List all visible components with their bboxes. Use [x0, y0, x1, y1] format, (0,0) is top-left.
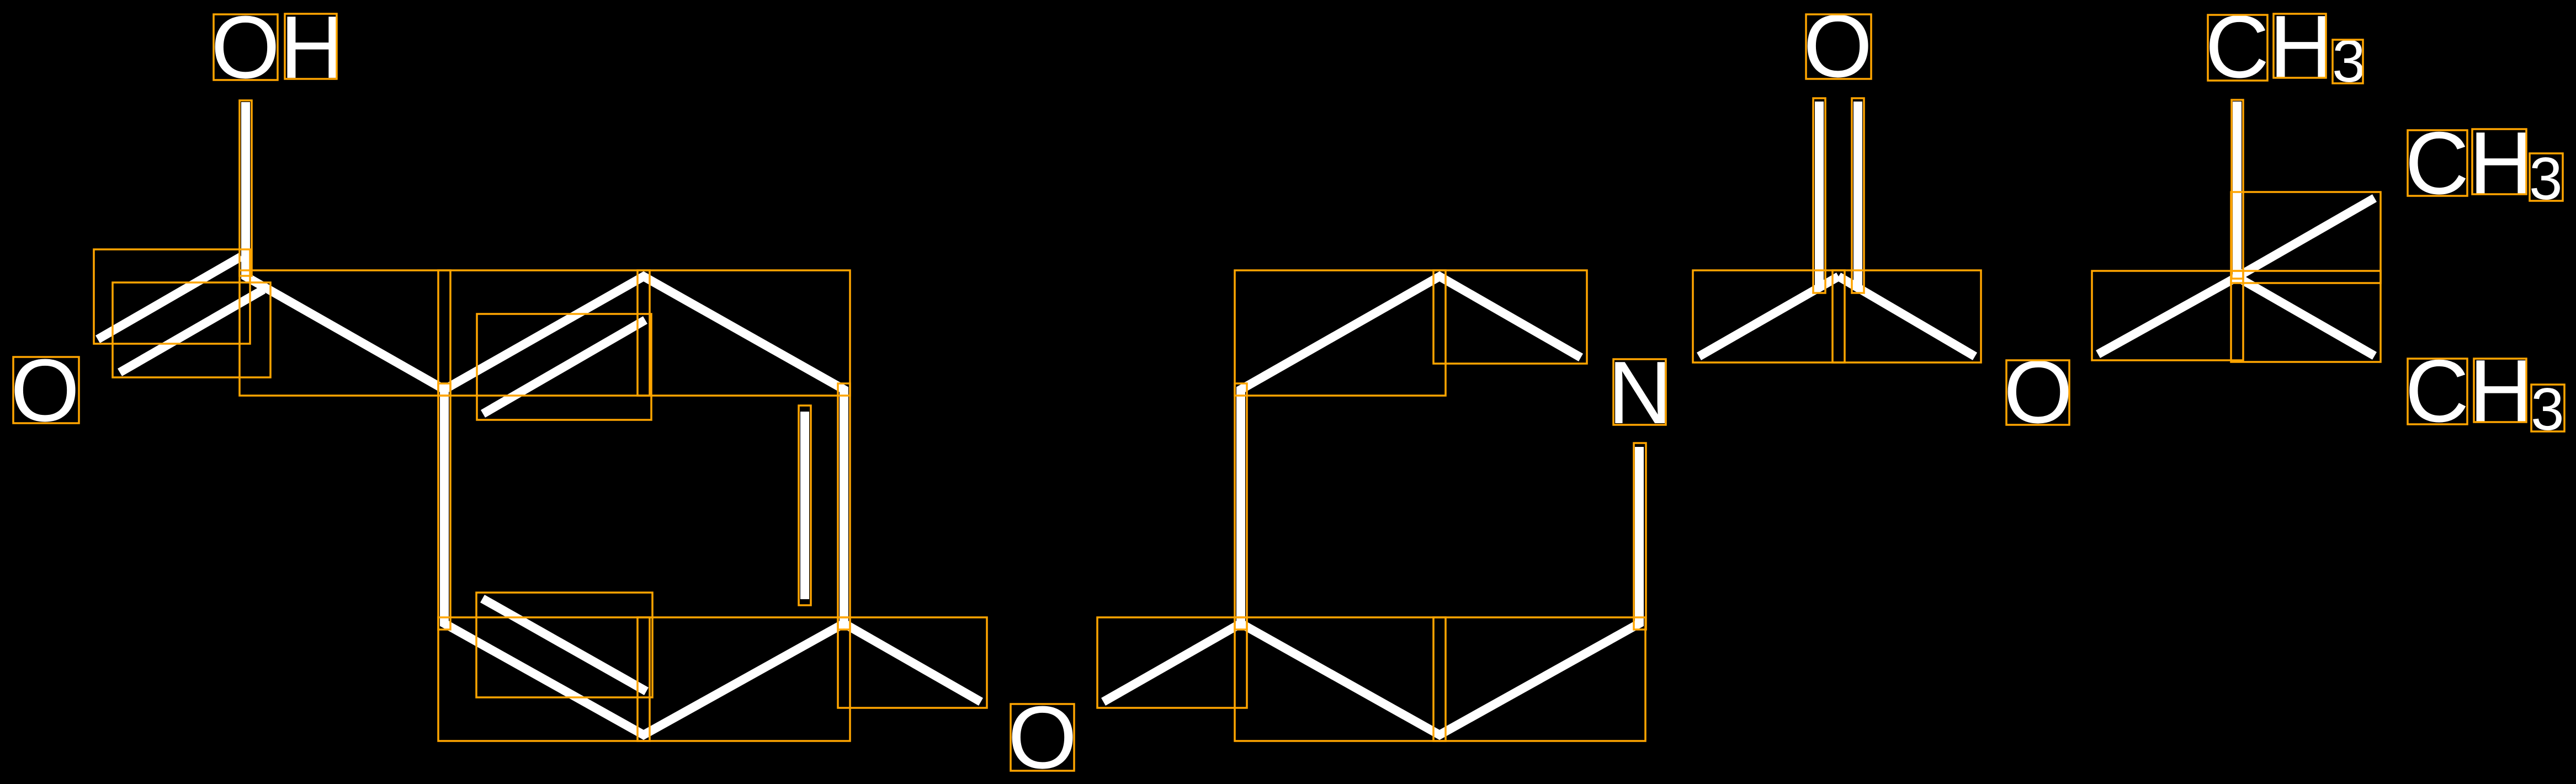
bbox bond C1=O1 lower: [113, 282, 270, 377]
bbox bond B-C: [438, 383, 450, 630]
benzene ring outline (bonds B-A, A-F, F-E, E-D, D-C, C-B): [444, 276, 844, 735]
bbox bond C3-CH3top: [2232, 100, 2243, 279]
bbox label O of OH: [214, 14, 278, 80]
bbox bond P2-P3: [1235, 383, 1247, 630]
bond C3-CH3top: [2233, 102, 2242, 277]
bond E-O3: [844, 623, 981, 702]
bond C2=O4 line left: [1815, 102, 1824, 289]
bbox bond B-A: [438, 270, 650, 396]
bbox label N: [1613, 359, 1666, 425]
bond C1=O1 line upper: [98, 257, 241, 339]
bbox bond B-A inner: [477, 314, 651, 420]
svg-text:3: 3: [2332, 28, 2366, 95]
svg-text:O: O: [2004, 343, 2073, 442]
bbox label 3 of CH3 top: [2333, 40, 2363, 83]
bbox bond C-D: [438, 617, 650, 741]
bbox label H of CH3 top: [2274, 14, 2326, 78]
bbox bond N-C2: [1693, 270, 1845, 362]
bbox bond P2-P1: [1235, 270, 1446, 396]
bbox bond C1=O1 upper: [94, 249, 250, 344]
bond C2=O4 line right: [1853, 102, 1862, 289]
bbox bond C3-CH3rl: [2231, 271, 2381, 362]
bond N-C2: [1699, 276, 1839, 356]
bbox bond N-P5: [1634, 443, 1646, 630]
svg-text:3: 3: [2529, 145, 2563, 212]
bbox label C of CH3 right-lower: [2408, 359, 2467, 424]
bbox bond O2(OH)-C1: [240, 100, 252, 276]
bbox bond C1-B: [240, 270, 450, 396]
bbox bond P1-N: [1433, 270, 1587, 364]
bbox bond F-E: [838, 383, 850, 630]
bond C2-O5: [1839, 276, 1975, 356]
bbox bond P4-P5: [1433, 617, 1645, 741]
bbox bond P3-P4: [1235, 617, 1446, 741]
svg-text:O: O: [1008, 688, 1077, 784]
bbox label O5: [2006, 360, 2069, 425]
bbox label H of CH3 right-lower: [2474, 359, 2526, 422]
bbox bond C2-O5: [1833, 270, 1981, 362]
bbox label O1: [13, 357, 79, 423]
bond C3-CH3right-lower: [2237, 277, 2375, 356]
bond B-A inner line: [483, 320, 645, 414]
bbox bond A-F: [638, 270, 850, 396]
svg-text:O: O: [10, 341, 79, 440]
svg-text:N: N: [1608, 343, 1672, 442]
bond F-E inner line: [800, 412, 809, 599]
bbox bond O5-C3: [2092, 271, 2243, 360]
bbox bond C2=O4 right: [1852, 98, 1864, 293]
bond O3-P3: [1103, 623, 1241, 702]
bbox bond O3-P3: [1097, 617, 1247, 708]
bond chain OH-C1-B (bond O2-C1 vertical and bond C1-B): [246, 102, 444, 390]
bond O5-C3: [2098, 277, 2237, 354]
bbox label C of CH3 top: [2208, 15, 2267, 81]
bbox bond D-E: [638, 617, 850, 741]
bbox bond E-O3: [838, 617, 987, 708]
bbox label O3: [1011, 704, 1074, 771]
svg-text:CH: CH: [2405, 342, 2533, 441]
bbox label H of OH: [285, 14, 337, 79]
bbox bond C2=O4 left: [1813, 98, 1825, 293]
bbox bond C3-CH3ru: [2231, 192, 2381, 283]
bbox label H of CH3 right-upper: [2472, 129, 2526, 194]
bbox label O4: [1806, 14, 1871, 79]
bond C3-CH3right-upper: [2237, 198, 2375, 277]
bbox bond F-E inner: [799, 406, 811, 605]
svg-text:3: 3: [2531, 376, 2564, 443]
bbox label 3 of CH3 right-upper: [2530, 153, 2563, 201]
bbox bond C-D inner: [476, 593, 652, 697]
bbox label C of CH3 right-upper: [2408, 130, 2467, 196]
bbox label 3 of CH3 right-lower: [2531, 385, 2564, 431]
bond C-D inner line: [482, 599, 646, 691]
bond C1=O1 line lower: [120, 290, 263, 372]
piperidine ring outline (bonds P1-N, P1-P2, P2-P3, P3-P4, P4-P5, P5-N): [1241, 276, 1639, 735]
